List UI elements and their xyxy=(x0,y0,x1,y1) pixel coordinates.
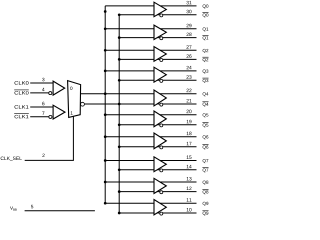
pin 27 xyxy=(187,45,192,48)
inversion bubble row 4 xyxy=(160,103,163,106)
pin 7 xyxy=(42,112,44,115)
net label CLK1bar xyxy=(15,115,29,118)
inversion bubble row 2 xyxy=(160,59,163,62)
node comp bus tap row 1 xyxy=(118,36,121,39)
mux port 0 label xyxy=(70,87,72,90)
wire Q5 true (pin 20) xyxy=(105,114,196,116)
pin 11 xyxy=(187,198,192,201)
net label Q5 xyxy=(203,113,209,117)
net label Q1bar xyxy=(203,36,209,40)
net label Q9bar xyxy=(203,212,209,216)
inversion bubble CLK1bar input xyxy=(49,115,52,118)
pin 6 xyxy=(42,102,44,105)
wire Q3 true (pin 24) xyxy=(105,70,196,72)
wire Q1 complement (pin 28) xyxy=(119,37,196,39)
pin 22 xyxy=(187,89,192,92)
net label Q9 xyxy=(203,202,209,206)
node true bus tap row 9 xyxy=(104,202,107,205)
buffer row 8 outputs Q8/Q8bar xyxy=(154,178,166,193)
node true bus tap row 7 xyxy=(104,159,107,162)
mux port 1 label xyxy=(71,111,73,114)
pin 21 xyxy=(187,99,192,102)
pin 3 xyxy=(42,78,44,81)
buffer row 4 outputs Q4/Q4bar xyxy=(154,90,166,106)
pin 4 xyxy=(42,88,44,91)
pin 28 xyxy=(187,33,192,36)
mux 2:1 clock select xyxy=(68,81,81,118)
wire CLK1bar (pin 7) xyxy=(30,116,49,118)
node comp bus tap row 7 xyxy=(118,168,121,171)
pin 26 xyxy=(187,54,192,57)
buffer row 2 outputs Q2/Q2bar xyxy=(154,47,166,62)
wire Q5 complement (pin 19) xyxy=(119,124,196,126)
pin 14 xyxy=(187,165,192,168)
pin 13 xyxy=(187,177,192,180)
inversion bubble row 5 xyxy=(160,124,163,127)
wire Q4 complement (pin 21) xyxy=(84,103,196,105)
input buffer CLK0 xyxy=(53,81,65,95)
net label CLK0 xyxy=(15,81,29,84)
net label Q2bar xyxy=(203,58,209,62)
wire Q3 complement (pin 23) xyxy=(119,79,196,81)
pin 31 xyxy=(186,1,191,4)
wire Q1 true (pin 29) xyxy=(105,28,196,30)
wire Q7 true (pin 15) xyxy=(105,160,196,162)
pin 10 xyxy=(187,208,192,211)
pin 24 xyxy=(187,66,192,69)
node true bus tap row 5 xyxy=(104,113,107,116)
wire Q8 complement (pin 12) xyxy=(119,191,196,193)
node comp bus tap row 3 xyxy=(118,79,121,82)
node true bus tap row 8 xyxy=(104,181,107,184)
pin 18 xyxy=(187,132,192,135)
node true bus tap row 4 xyxy=(104,92,107,95)
bus complement vertical xyxy=(118,15,120,213)
wire Q6 complement (pin 17) xyxy=(119,146,196,148)
net label CLK0bar xyxy=(15,91,29,94)
input buffer CLK1 xyxy=(53,105,65,119)
pin 12 xyxy=(187,187,192,190)
inversion bubble row 9 xyxy=(160,212,163,215)
node comp bus tap row 0 xyxy=(118,13,121,16)
buffer row 3 outputs Q3/Q3bar xyxy=(154,67,166,82)
net label Q8bar xyxy=(203,190,209,194)
net label CLK1 xyxy=(15,105,29,108)
wire Q4 true (pin 22) xyxy=(81,93,197,95)
wire Q8 true (pin 13) xyxy=(105,181,196,183)
wire Q9 complement (pin 10) xyxy=(119,212,196,214)
wire CLK1 (pin 6) xyxy=(30,106,53,108)
wire Q6 true (pin 18) xyxy=(105,136,196,138)
net label Q4 xyxy=(203,92,209,96)
wire Q9 true (pin 11) xyxy=(105,202,196,204)
buffer row 5 outputs Q5/Q5bar xyxy=(154,111,166,127)
pin 20 xyxy=(187,110,192,113)
node true bus tap row 2 xyxy=(104,49,107,52)
pin 5 xyxy=(31,205,33,208)
net label Q3bar xyxy=(203,79,209,83)
inversion bubble row 1 xyxy=(160,37,163,40)
wire CLK0bar (pin 4) xyxy=(30,92,49,94)
inversion bubble CLK0bar input xyxy=(49,92,52,95)
node true bus upper junction xyxy=(104,10,107,13)
inversion bubble row 8 xyxy=(160,191,163,194)
buffer row 6 outputs Q6/Q6bar xyxy=(154,133,166,149)
wire Q0 complement (pin 30) xyxy=(119,14,196,16)
inversion bubble row 6 xyxy=(160,146,163,149)
buffer row 9 outputs Q9/Q9bar xyxy=(154,200,166,215)
net label Q3 xyxy=(203,69,209,73)
net label Q6bar xyxy=(203,145,209,149)
wire Q2 true (pin 27) xyxy=(105,49,196,51)
net label Q6 xyxy=(203,135,209,139)
node comp bus tap row 9 xyxy=(118,212,121,215)
wire VBB stub (pin 5) xyxy=(25,210,95,212)
inversion bubble row 0 xyxy=(160,14,163,17)
inversion bubble row 7 xyxy=(160,169,163,172)
pin 2 xyxy=(42,154,44,157)
pin 29 xyxy=(187,24,192,27)
net label VBB xyxy=(10,206,17,210)
wire CLK0 (pin 3) xyxy=(30,82,53,84)
bus true vertical xyxy=(104,6,106,203)
net label Q5bar xyxy=(203,123,209,127)
net label Q1 xyxy=(203,27,209,31)
node true bus tap row 6 xyxy=(104,135,107,138)
wire Q0 true (pin 31) xyxy=(105,5,196,7)
net label Q4bar xyxy=(203,103,209,107)
net label Q7bar xyxy=(203,168,209,172)
wire Q7 complement (pin 14) xyxy=(119,169,196,171)
net label Q0 xyxy=(203,4,209,8)
net label Q0bar xyxy=(203,13,209,17)
node comp bus tap row 6 xyxy=(118,145,121,148)
node comp bus tap row 5 xyxy=(118,123,121,126)
pin 23 xyxy=(187,75,192,78)
inversion bubble row 3 xyxy=(160,79,163,82)
node comp bus tap row 4 xyxy=(118,103,121,106)
pin 19 xyxy=(187,120,192,123)
pin 30 xyxy=(186,10,191,13)
mux inversion bubble xyxy=(81,102,85,106)
node comp bus tap row 2 xyxy=(118,58,121,61)
wire CLK_SEL (pin 2) to mux select xyxy=(25,116,74,160)
pin 17 xyxy=(187,142,192,145)
node comp bus tap row 8 xyxy=(118,190,121,193)
net label CLK_SEL xyxy=(1,157,22,161)
node true bus tap row 1 xyxy=(104,27,107,30)
net label Q2 xyxy=(203,49,209,53)
net label Q8 xyxy=(203,181,209,185)
buffer row 0 outputs Q0/Q0bar xyxy=(154,2,166,17)
wire Q2 complement (pin 26) xyxy=(119,58,196,60)
net label Q7 xyxy=(203,159,209,163)
node true bus tap row 3 xyxy=(104,70,107,73)
buffer row 1 outputs Q1/Q1bar xyxy=(154,25,166,39)
buffer row 7 outputs Q7/Q7bar xyxy=(154,157,166,172)
pin 15 xyxy=(187,156,192,159)
